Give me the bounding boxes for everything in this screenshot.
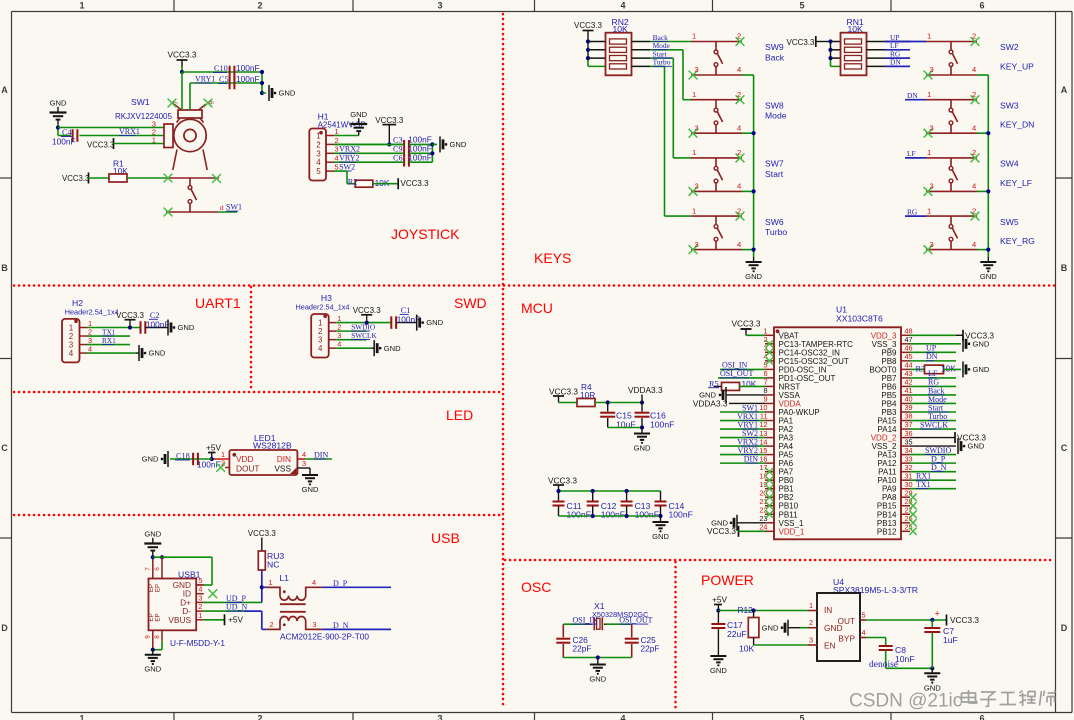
svg-text:100nF: 100nF	[146, 320, 170, 330]
svg-text:Mode: Mode	[765, 111, 787, 121]
svg-text:+5V: +5V	[712, 595, 727, 605]
svg-text:4: 4	[737, 65, 741, 74]
svg-text:GND: GND	[710, 666, 727, 675]
svg-text:PB12: PB12	[877, 527, 897, 536]
svg-text:EP: EP	[155, 613, 162, 621]
svg-text:SW9: SW9	[765, 42, 784, 52]
svg-text:10K: 10K	[941, 363, 956, 373]
svg-text:24: 24	[759, 523, 767, 532]
svg-text:LED: LED	[446, 407, 473, 423]
svg-text:VSS: VSS	[274, 464, 291, 474]
svg-text:GND: GND	[302, 485, 319, 494]
svg-text:2: 2	[737, 90, 741, 99]
svg-text:EN: EN	[824, 641, 836, 651]
svg-text:4: 4	[198, 585, 202, 594]
svg-text:GND: GND	[745, 272, 762, 281]
svg-text:4: 4	[972, 123, 976, 132]
svg-text:4: 4	[337, 340, 341, 349]
svg-text:VRX2: VRX2	[339, 145, 360, 154]
svg-text:H3: H3	[321, 293, 332, 303]
svg-text:2: 2	[809, 618, 813, 627]
svg-text:POWER: POWER	[701, 572, 754, 588]
svg-text:GND: GND	[634, 444, 651, 453]
svg-text:VCC3.3: VCC3.3	[87, 141, 114, 150]
svg-text:3: 3	[695, 182, 699, 191]
svg-text:D_N: D_N	[333, 621, 349, 630]
svg-text:C5: C5	[219, 75, 229, 84]
svg-text:GND: GND	[589, 675, 606, 684]
svg-text:2: 2	[221, 459, 225, 468]
svg-text:5: 5	[799, 714, 804, 720]
svg-text:C9: C9	[393, 145, 403, 154]
svg-text:GND: GND	[973, 365, 990, 374]
svg-text:C: C	[1061, 443, 1068, 453]
svg-text:VDDA3.3: VDDA3.3	[628, 385, 663, 395]
svg-text:XX103C8T6: XX103C8T6	[836, 314, 883, 324]
svg-text:VDDA3.3: VDDA3.3	[693, 398, 728, 408]
svg-text:1: 1	[269, 578, 273, 587]
svg-text:4: 4	[972, 240, 976, 249]
svg-text:2: 2	[270, 620, 274, 629]
svg-text:DIN: DIN	[744, 454, 758, 463]
svg-text:100nF: 100nF	[408, 153, 432, 163]
svg-text:6: 6	[979, 1, 984, 11]
svg-text:3: 3	[335, 145, 339, 154]
svg-text:+5V: +5V	[206, 443, 221, 453]
svg-text:DIN: DIN	[277, 454, 291, 464]
svg-text:OSC: OSC	[521, 579, 551, 595]
svg-text:4: 4	[620, 1, 625, 11]
svg-text:1: 1	[79, 714, 84, 720]
svg-text:GND: GND	[973, 339, 990, 348]
svg-text:C: C	[1, 443, 8, 453]
svg-text:A: A	[1, 85, 8, 95]
svg-text:GND: GND	[279, 89, 296, 98]
svg-text:C3: C3	[393, 136, 403, 145]
svg-text:VDD_1: VDD_1	[779, 527, 805, 536]
svg-text:WS2812B: WS2812B	[253, 441, 292, 451]
svg-text:1: 1	[335, 127, 339, 136]
svg-text:EP: EP	[155, 584, 162, 592]
svg-text:LF: LF	[907, 149, 916, 158]
svg-text:RKJXV1224005: RKJXV1224005	[115, 112, 172, 121]
svg-text:5: 5	[861, 611, 865, 620]
svg-text:5: 5	[335, 163, 339, 172]
svg-text:d: d	[220, 205, 224, 212]
svg-text:Turbo: Turbo	[653, 58, 671, 67]
svg-text:2: 2	[257, 1, 262, 11]
svg-text:3: 3	[695, 123, 699, 132]
svg-text:D: D	[1, 623, 8, 633]
svg-text:KEYS: KEYS	[534, 250, 571, 266]
svg-text:+: +	[935, 609, 940, 619]
svg-text:VRX1: VRX1	[119, 127, 140, 136]
svg-text:BYP: BYP	[838, 634, 855, 644]
svg-text:VCC3.3: VCC3.3	[549, 387, 578, 397]
svg-text:4: 4	[737, 182, 741, 191]
svg-text:GND: GND	[142, 455, 159, 464]
svg-text:5: 5	[799, 1, 804, 11]
svg-text:D: D	[1061, 623, 1068, 633]
svg-text:KEY_LF: KEY_LF	[1000, 178, 1032, 188]
svg-text:KEY_UP: KEY_UP	[1000, 62, 1034, 72]
svg-text:OSI_OUT: OSI_OUT	[619, 616, 652, 625]
svg-text:1: 1	[692, 148, 696, 157]
svg-text:B: B	[1061, 263, 1068, 273]
svg-text:GND: GND	[450, 140, 467, 149]
svg-text:1: 1	[79, 1, 84, 11]
svg-text:KEY_DN: KEY_DN	[1000, 120, 1034, 130]
svg-text:VCC3.3: VCC3.3	[353, 306, 382, 315]
svg-text:GND: GND	[426, 318, 443, 327]
svg-text:10K: 10K	[742, 379, 757, 389]
svg-text:3: 3	[930, 65, 934, 74]
svg-text:GND: GND	[178, 323, 195, 332]
svg-text:10K: 10K	[613, 24, 629, 34]
svg-text:6: 6	[154, 567, 161, 571]
svg-text:SW3: SW3	[1000, 100, 1019, 110]
svg-text:2: 2	[972, 148, 976, 157]
svg-text:4: 4	[861, 628, 865, 637]
svg-text:SW5: SW5	[1000, 217, 1019, 227]
svg-text:SW8: SW8	[765, 100, 784, 110]
svg-text:22uF: 22uF	[727, 629, 747, 639]
svg-text:DN: DN	[907, 91, 918, 100]
svg-text:DOUT: DOUT	[236, 464, 260, 474]
svg-text:1: 1	[316, 132, 321, 141]
svg-text:9: 9	[145, 635, 152, 639]
svg-text:10K: 10K	[739, 644, 755, 654]
svg-text:100nF: 100nF	[601, 510, 625, 520]
svg-text:1uF: 1uF	[943, 635, 958, 645]
svg-text:2: 2	[737, 206, 741, 215]
svg-text:DIN: DIN	[314, 451, 328, 460]
svg-text:SW7: SW7	[765, 159, 784, 169]
svg-text:2: 2	[972, 90, 976, 99]
svg-text:GND: GND	[350, 110, 367, 119]
svg-text:A: A	[1061, 85, 1068, 95]
svg-text:10K: 10K	[848, 24, 864, 34]
svg-text:SW2: SW2	[339, 162, 355, 171]
svg-text:2: 2	[972, 206, 976, 215]
svg-text:3: 3	[930, 240, 934, 249]
svg-text:GND: GND	[980, 272, 997, 281]
svg-text:JOYSTICK: JOYSTICK	[391, 226, 460, 242]
svg-text:3: 3	[302, 459, 306, 468]
svg-text:1: 1	[927, 148, 931, 157]
svg-text:SW6: SW6	[765, 217, 784, 227]
svg-text:ACM2012E-900-2P-T00: ACM2012E-900-2P-T00	[280, 631, 369, 641]
svg-text:KEY_RG: KEY_RG	[1000, 236, 1035, 246]
svg-text:IN: IN	[824, 605, 832, 615]
svg-text:1: 1	[927, 32, 931, 41]
svg-text:DN: DN	[926, 352, 938, 361]
svg-text:VCC3.3: VCC3.3	[167, 50, 196, 60]
svg-text:U-F-M5DD-Y-1: U-F-M5DD-Y-1	[170, 638, 225, 648]
svg-text:3: 3	[313, 620, 317, 629]
svg-text:VCC3.3: VCC3.3	[707, 526, 736, 536]
svg-text:Start: Start	[765, 169, 784, 179]
svg-text:22pF: 22pF	[573, 644, 592, 654]
svg-text:D_P: D_P	[333, 579, 348, 588]
svg-text:VBUS: VBUS	[168, 615, 191, 625]
svg-text:VCC3.3: VCC3.3	[786, 38, 815, 47]
svg-text:C6: C6	[393, 154, 403, 163]
svg-text:6: 6	[979, 714, 984, 720]
svg-text:Header2.54_1x4: Header2.54_1x4	[65, 308, 119, 317]
svg-text:Header2.54_1x4: Header2.54_1x4	[296, 303, 350, 312]
svg-text:100nF: 100nF	[650, 420, 674, 430]
svg-text:4: 4	[737, 240, 741, 249]
svg-text:100nF: 100nF	[236, 74, 260, 84]
svg-text:H2: H2	[72, 298, 83, 308]
svg-text:VDD: VDD	[236, 454, 254, 464]
svg-text:4: 4	[318, 344, 323, 353]
svg-text:OUT: OUT	[837, 616, 855, 626]
svg-text:D_N: D_N	[931, 463, 947, 472]
svg-text:R5: R5	[709, 380, 719, 389]
svg-text:4: 4	[737, 123, 741, 132]
svg-text:100nF: 100nF	[52, 137, 76, 147]
svg-text:SW1: SW1	[131, 97, 150, 107]
svg-text:VCC3.3: VCC3.3	[62, 174, 89, 183]
svg-text:1: 1	[809, 601, 813, 610]
svg-text:3: 3	[695, 65, 699, 74]
svg-text:GND: GND	[149, 349, 166, 358]
svg-text:SWCLK: SWCLK	[351, 331, 377, 340]
svg-text:SWD: SWD	[454, 295, 487, 311]
svg-text:4: 4	[316, 158, 321, 167]
svg-text:TX1: TX1	[916, 480, 931, 489]
svg-text:VCC3.3: VCC3.3	[548, 476, 577, 486]
svg-text:100nF: 100nF	[236, 63, 260, 73]
svg-text:RX1: RX1	[102, 336, 116, 345]
svg-text:8: 8	[154, 635, 161, 639]
svg-text:VCC3.3: VCC3.3	[375, 116, 404, 125]
svg-text:4: 4	[69, 349, 74, 358]
svg-text:100nF: 100nF	[567, 510, 591, 520]
svg-text:CSDN @21ic: CSDN @21ic	[849, 691, 962, 712]
svg-text:B: B	[1, 263, 8, 273]
svg-text:GND: GND	[384, 344, 401, 353]
svg-text:Back: Back	[765, 53, 785, 63]
svg-text:1: 1	[198, 611, 202, 620]
svg-text:4: 4	[620, 714, 625, 720]
svg-text:100nF: 100nF	[669, 510, 693, 520]
svg-text:3: 3	[930, 182, 934, 191]
svg-text:6: 6	[207, 101, 214, 105]
svg-text:GND: GND	[968, 442, 985, 451]
svg-text:GND: GND	[50, 99, 67, 108]
svg-text:OSI_IN: OSI_IN	[573, 616, 599, 625]
svg-text:C10: C10	[214, 64, 228, 73]
svg-text:R2: R2	[348, 177, 358, 186]
svg-text:22pF: 22pF	[641, 644, 660, 654]
svg-text:1: 1	[927, 90, 931, 99]
svg-text:VCC3.3: VCC3.3	[731, 319, 760, 329]
svg-text:3: 3	[316, 149, 321, 158]
svg-text:5: 5	[316, 167, 321, 176]
svg-text:1: 1	[152, 136, 156, 145]
svg-text:L1: L1	[279, 573, 289, 583]
svg-text:USB: USB	[431, 530, 460, 546]
svg-text:NC: NC	[267, 560, 279, 570]
svg-text:1: 1	[692, 32, 696, 41]
svg-text:1: 1	[927, 206, 931, 215]
svg-text:GND: GND	[652, 532, 669, 541]
svg-text:VCC3.3: VCC3.3	[574, 21, 603, 30]
svg-text:3: 3	[930, 123, 934, 132]
svg-text:3: 3	[437, 1, 442, 11]
svg-text:VCC3.3: VCC3.3	[401, 179, 430, 188]
svg-text:2: 2	[737, 148, 741, 157]
svg-text:2: 2	[257, 714, 262, 720]
svg-text:UART1: UART1	[195, 295, 241, 311]
svg-text:4: 4	[312, 578, 316, 587]
svg-text:2: 2	[198, 602, 202, 611]
svg-text:100nF: 100nF	[635, 510, 659, 520]
svg-text:7: 7	[145, 567, 152, 571]
svg-text:DN: DN	[890, 58, 901, 67]
svg-text:C18: C18	[176, 452, 190, 461]
svg-text:GND: GND	[144, 665, 161, 674]
svg-text:2: 2	[972, 32, 976, 41]
svg-text:+5V: +5V	[228, 615, 243, 625]
svg-text:GND: GND	[762, 623, 779, 632]
svg-text:GND: GND	[144, 530, 161, 539]
svg-text:4: 4	[88, 344, 92, 353]
svg-text:2: 2	[335, 136, 339, 145]
svg-text:SWCLK: SWCLK	[920, 420, 948, 429]
svg-text:R12: R12	[738, 605, 754, 615]
svg-text:1: 1	[692, 206, 696, 215]
svg-text:7: 7	[173, 100, 180, 104]
svg-text:Turbo: Turbo	[765, 227, 787, 237]
svg-text:UD_P: UD_P	[226, 594, 247, 603]
svg-text:4: 4	[972, 65, 976, 74]
svg-text:1: 1	[692, 90, 696, 99]
svg-text:2: 2	[737, 32, 741, 41]
svg-text:VRY1: VRY1	[195, 75, 215, 84]
svg-text:RG: RG	[907, 207, 918, 216]
svg-text:SW4: SW4	[1000, 159, 1019, 169]
svg-text:VCC3.3: VCC3.3	[116, 311, 145, 320]
svg-text:VRY2: VRY2	[339, 154, 359, 163]
svg-text:SW1: SW1	[226, 203, 242, 212]
svg-text:VCC3.3: VCC3.3	[950, 615, 979, 625]
svg-text:4: 4	[335, 154, 339, 163]
svg-text:3: 3	[809, 636, 813, 645]
svg-text:2: 2	[316, 140, 321, 149]
svg-text:3: 3	[437, 714, 442, 720]
svg-text:VCC3.3: VCC3.3	[248, 529, 277, 538]
svg-text:OSI_OUT: OSI_OUT	[720, 369, 753, 378]
svg-text:4: 4	[302, 450, 306, 459]
svg-text:MCU: MCU	[521, 300, 553, 316]
svg-text:4: 4	[972, 182, 976, 191]
svg-text:SW2: SW2	[1000, 42, 1019, 52]
svg-text:5: 5	[198, 576, 202, 585]
svg-text:3: 3	[198, 593, 202, 602]
svg-text:3: 3	[695, 240, 699, 249]
